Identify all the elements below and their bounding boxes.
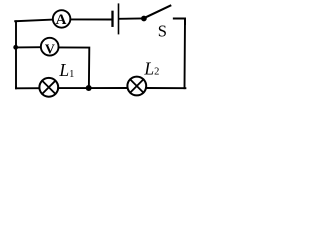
wire ammeter to battery: [71, 18, 112, 20]
wire battery to switch: [119, 18, 142, 20]
voltmeter V: [41, 38, 59, 56]
node junction on left rail: [13, 45, 18, 50]
wire bottom left segment: [16, 87, 39, 90]
wire switch terminal to top right corner: [174, 19, 185, 25]
wire L2 to bottom right corner: [146, 87, 185, 89]
ammeter A: [53, 10, 71, 28]
node junction on bottom wire: [86, 85, 92, 91]
wire top left segment: [15, 20, 52, 22]
svg-text:S: S: [158, 21, 167, 40]
wire junction to L2: [92, 87, 128, 89]
svg-text:A: A: [56, 12, 67, 28]
switch pivot dot: [141, 16, 147, 22]
wire L1 to junction: [58, 87, 86, 89]
battery positive plate (long): [118, 4, 120, 33]
battery negative plate (short): [111, 12, 113, 26]
wire left rail: [15, 21, 17, 88]
wire voltmeter to corner and down: [59, 47, 90, 85]
switch S blade: [145, 6, 171, 18]
lamp L2: [127, 77, 146, 96]
wire voltmeter branch left: [16, 46, 41, 48]
lamp L1: [39, 78, 58, 97]
svg-text:V: V: [45, 41, 55, 56]
wire right rail: [184, 19, 187, 89]
